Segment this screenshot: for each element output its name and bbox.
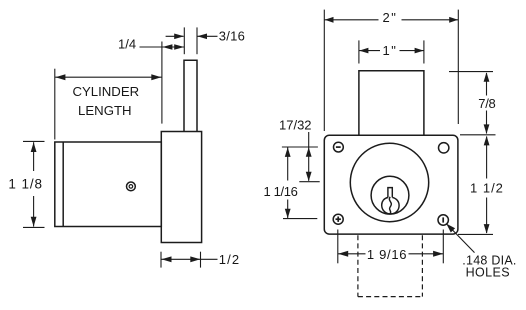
- 1 1/16 dimension: [287, 148, 289, 181]
- lock body (side view): [55, 142, 162, 227]
- svg-text:1": 1": [382, 43, 397, 58]
- svg-text:1/2: 1/2: [219, 252, 241, 267]
- shared tick at plate top level: [460, 134, 496, 136]
- 7/8 dimension: [449, 71, 493, 73]
- cylinder-length left extension line: [54, 69, 56, 140]
- svg-text:17/32: 17/32: [279, 118, 312, 133]
- body inner face line: [62, 142, 64, 227]
- 3/16 dimension lines: [166, 35, 184, 37]
- svg-text:2": 2": [382, 10, 397, 25]
- keyway: [382, 188, 399, 215]
- svg-text:1 1/2: 1 1/2: [470, 181, 504, 196]
- 1/2 dimension: [160, 252, 162, 268]
- svg-text:HOLES: HOLES: [466, 266, 510, 280]
- 2 inch extension lines: [323, 10, 325, 131]
- 1 9/16 dimension: [337, 230, 339, 264]
- svg-text:1/4: 1/4: [118, 37, 136, 52]
- .148 dia leader: [446, 224, 474, 253]
- cylinder nose (front view): [359, 71, 424, 135]
- svg-text:3/16: 3/16: [219, 29, 246, 44]
- cylinder-length right extension line: [161, 42, 163, 124]
- svg-text:LENGTH: LENGTH: [78, 103, 132, 118]
- svg-text:1 1/8: 1 1/8: [8, 177, 43, 192]
- svg-text:7/8: 7/8: [478, 96, 495, 111]
- cylinder bezel circle: [350, 143, 428, 221]
- screw hole bottom-right: [438, 215, 448, 225]
- flange (side view): [161, 132, 201, 243]
- svg-text:1 9/16: 1 9/16: [367, 247, 407, 262]
- 17/32 dimension: [282, 146, 318, 148]
- 1 inch dimension line: [359, 50, 380, 52]
- 1 inch extension lines: [358, 40, 360, 63]
- screw hole top-right: [439, 143, 449, 153]
- cylinder plug circle: [371, 176, 409, 214]
- bolt bar extension lines: [183, 27, 185, 54]
- svg-text:1 1/16: 1 1/16: [264, 184, 298, 199]
- 2 inch dimension line: [325, 19, 379, 21]
- face plate (front view): [324, 135, 458, 234]
- 1/4 dimension line: [140, 46, 185, 48]
- 1 1/2 dimension: [486, 137, 488, 179]
- screw hole bottom-left: [333, 214, 343, 224]
- cylinder-length dimension line: [55, 76, 161, 78]
- bolt bar (side view): [184, 60, 197, 131]
- svg-text:CYLINDER: CYLINDER: [72, 84, 139, 99]
- hidden body dashed outline: [357, 235, 359, 296]
- rivet outer circle: [126, 182, 135, 191]
- rivet inner circle: [129, 185, 133, 189]
- screw hole top-left: [334, 142, 344, 152]
- 1 1/8 dimension: [23, 140, 45, 142]
